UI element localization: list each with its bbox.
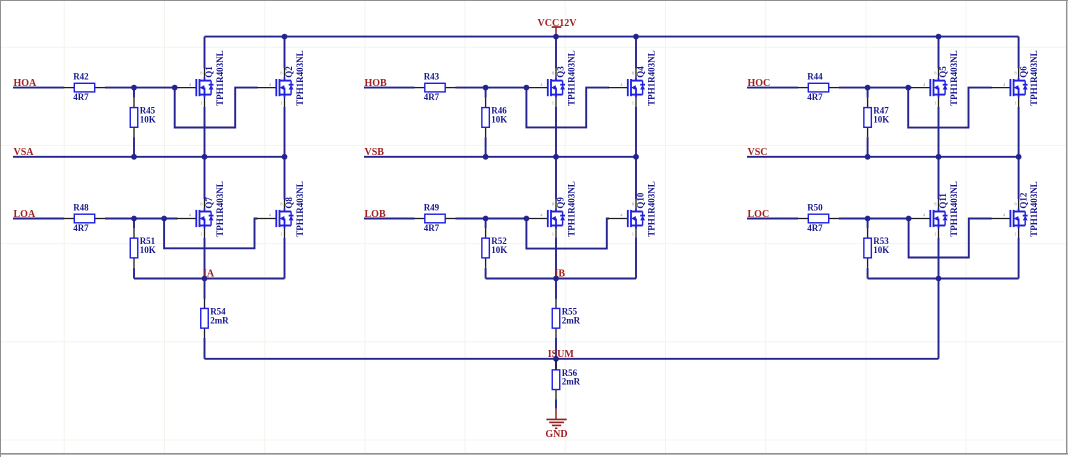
svg-text:TPH1R403NL: TPH1R403NL	[215, 181, 225, 237]
bulk-source tie	[555, 88, 557, 95]
source stub	[934, 225, 946, 227]
transistor Q12 TPH1R403NL N-MOSFET	[991, 181, 1040, 238]
svg-text:Q10: Q10	[636, 192, 646, 209]
junction VSA/R45	[131, 154, 137, 160]
pin 1	[867, 228, 869, 238]
source stub	[551, 225, 563, 227]
svg-text:TPH1R403NL: TPH1R403NL	[647, 181, 657, 237]
wire R45 top	[133, 88, 135, 98]
source stub	[631, 94, 643, 96]
wire phase C node to ISUM	[938, 279, 940, 359]
wire phase B source node	[486, 278, 636, 280]
source pin	[938, 229, 940, 239]
resistor R52 10K	[482, 228, 507, 268]
body	[864, 108, 872, 128]
resistor R51 10K	[130, 228, 155, 268]
drain stub	[280, 80, 292, 82]
gate pin	[257, 218, 277, 220]
gate bar	[1009, 79, 1011, 96]
junction VSB/R46	[483, 154, 489, 160]
resistor R49 4R7	[414, 202, 455, 233]
source pin	[555, 98, 557, 108]
pin 2	[133, 127, 135, 137]
wire ISUM to R56	[555, 359, 557, 370]
svg-text:Q11: Q11	[938, 193, 948, 209]
pin 2	[867, 127, 869, 137]
wire phase C source node	[868, 278, 1019, 280]
pin 1	[204, 299, 206, 309]
drain pin	[204, 68, 206, 78]
source pin	[1018, 98, 1020, 108]
wire Q11 drain to VSC	[938, 157, 940, 199]
pin 1	[555, 299, 557, 309]
junction LOB gate node	[524, 216, 530, 222]
source stub	[280, 94, 292, 96]
svg-text:10K: 10K	[140, 114, 156, 124]
svg-text:Q5: Q5	[938, 66, 948, 78]
source stub	[934, 94, 946, 96]
junction LOA/R51	[131, 216, 137, 222]
wire Q4 source to VSB	[635, 107, 637, 157]
pin 1	[64, 87, 74, 89]
resistor R55 2mR	[552, 299, 580, 339]
body diode	[1024, 212, 1026, 216]
wire R47 top	[867, 88, 869, 98]
wire Q11 source down	[938, 238, 940, 279]
junction VSC/R47	[865, 154, 871, 160]
wire VSC net	[747, 156, 1019, 158]
wire Q3 source to VSB	[555, 107, 557, 157]
resistor R45 10K	[130, 98, 155, 138]
svg-text:VCC12V: VCC12V	[538, 18, 578, 29]
resistor R42 4R7	[64, 71, 105, 102]
transistor Q9 TPH1R403NL N-MOSFET	[528, 181, 577, 238]
svg-text:4R7: 4R7	[807, 223, 823, 233]
pin 2	[829, 218, 839, 220]
drain stub	[200, 211, 212, 213]
wire ISUM net	[205, 358, 939, 360]
source pin	[284, 229, 286, 239]
junction VCC12V/Q2	[282, 34, 288, 40]
pin 2	[204, 328, 206, 338]
transistor Q10 TPH1R403NL N-MOSFET	[608, 181, 657, 238]
wire R52 top	[485, 219, 487, 229]
pin 2	[445, 218, 455, 220]
svg-text:2mR: 2mR	[210, 315, 229, 325]
svg-text:GND: GND	[545, 429, 567, 440]
wire R51 top	[133, 219, 135, 229]
svg-text:4R7: 4R7	[807, 92, 823, 102]
body	[808, 214, 828, 223]
svg-text:10K: 10K	[491, 245, 507, 255]
channel bar	[550, 79, 552, 96]
bulk stub with arrow	[203, 218, 205, 220]
gate pin	[608, 218, 628, 220]
wire Q7 source down	[204, 238, 206, 279]
wire R46 bottom	[485, 137, 487, 157]
drain pin	[204, 199, 206, 209]
gate pin	[911, 87, 931, 89]
body	[425, 83, 445, 92]
drain stub	[280, 211, 292, 213]
net label LOB	[365, 209, 386, 220]
wire HOA net	[13, 87, 178, 89]
bulk-source tie	[635, 219, 637, 226]
junction phase A source node	[202, 276, 208, 282]
body diode	[210, 212, 212, 216]
drain pin	[1018, 199, 1020, 209]
gate pin	[177, 87, 197, 89]
junction HOB gate node	[524, 85, 530, 91]
channel bar	[630, 79, 632, 96]
transistor Q7 TPH1R403NL N-MOSFET	[177, 181, 226, 238]
junction VSC/Q6	[1016, 154, 1022, 160]
bulk stub with arrow	[554, 87, 556, 89]
wire Q9 source down	[555, 238, 557, 279]
body diode	[290, 212, 292, 216]
pin 2	[133, 258, 135, 268]
wire Q1 drain to VCC	[204, 37, 206, 69]
svg-text:4R7: 4R7	[73, 223, 89, 233]
bulk-source tie	[635, 88, 637, 95]
svg-text:10K: 10K	[873, 114, 889, 124]
net label VSC	[748, 147, 768, 158]
net label LOA	[14, 209, 36, 220]
svg-text:R44: R44	[807, 71, 823, 81]
svg-text:Q4: Q4	[636, 66, 646, 78]
body diode	[1024, 81, 1026, 85]
drain pin	[1018, 68, 1020, 78]
body	[74, 83, 94, 92]
transistor Q1 TPH1R403NL N-MOSFET	[177, 50, 226, 107]
wire VSA net	[13, 156, 285, 158]
source stub	[280, 225, 292, 227]
wire Q2 drain to VCC	[284, 37, 286, 69]
drain pin	[635, 68, 637, 78]
net label IA	[203, 269, 215, 280]
drain pin	[284, 199, 286, 209]
svg-text:4R7: 4R7	[424, 223, 440, 233]
bulk stub with arrow	[1017, 218, 1019, 220]
wire LOA net	[13, 218, 178, 220]
svg-text:Q12: Q12	[1018, 192, 1028, 209]
wire Q12 source down	[1018, 238, 1020, 279]
body	[482, 108, 490, 128]
wire Q6 gate route	[908, 88, 991, 128]
junction HOC/R47	[865, 85, 871, 91]
source pin	[284, 98, 286, 108]
gate pin	[528, 218, 548, 220]
wire R45 bottom	[133, 137, 135, 157]
net label HOC	[748, 78, 771, 89]
junction VSA/Q2	[282, 154, 288, 160]
svg-text:Q3: Q3	[556, 66, 566, 78]
junction LOA gate node	[161, 216, 167, 222]
svg-text:Q6: Q6	[1018, 66, 1028, 78]
channel bar	[630, 210, 632, 227]
body diode	[944, 81, 946, 85]
drain pin	[555, 68, 557, 78]
power port VCC12V	[538, 18, 578, 37]
bulk stub with arrow	[634, 87, 636, 89]
resistor R43 4R7	[414, 71, 455, 102]
gate pin	[528, 87, 548, 89]
svg-text:TPH1R403NL: TPH1R403NL	[295, 181, 305, 237]
wire Q4 gate route	[526, 88, 609, 128]
resistor R48 4R7	[64, 202, 105, 233]
wire HOC net	[747, 87, 912, 89]
bulk stub with arrow	[554, 218, 556, 220]
wire R47 bottom	[867, 137, 869, 157]
transistor Q6 TPH1R403NL N-MOSFET	[991, 50, 1040, 107]
junction LOB/R52	[483, 216, 489, 222]
svg-text:TPH1R403NL: TPH1R403NL	[949, 50, 959, 106]
svg-text:Q8: Q8	[284, 197, 294, 209]
wire R56 to ground	[555, 400, 557, 409]
svg-text:Q9: Q9	[556, 197, 566, 209]
svg-text:TPH1R403NL: TPH1R403NL	[295, 50, 305, 106]
body	[552, 308, 560, 328]
junction VCC12V/Q3	[553, 34, 559, 40]
gate pin	[991, 87, 1011, 89]
pin 2	[555, 390, 557, 400]
channel bar	[933, 79, 935, 96]
wire Q5 drain to VCC	[938, 37, 940, 69]
junction HOC gate node	[905, 85, 911, 91]
gate bar	[627, 210, 629, 227]
wire R55 to ISUM	[555, 338, 557, 359]
source pin	[555, 229, 557, 239]
net label IB	[555, 269, 566, 280]
transistor Q8 TPH1R403NL N-MOSFET	[257, 181, 306, 238]
body	[864, 238, 872, 258]
pin 1	[798, 218, 808, 220]
junction HOB/R46	[483, 85, 489, 91]
drain stub	[934, 80, 946, 82]
svg-text:10K: 10K	[140, 245, 156, 255]
wire Q8 drain to VSA	[284, 157, 286, 199]
channel bar	[199, 79, 201, 96]
net label VSB	[365, 147, 385, 158]
svg-text:TPH1R403NL: TPH1R403NL	[1029, 181, 1039, 237]
svg-text:R43: R43	[424, 71, 440, 81]
pin 2	[95, 218, 105, 220]
body	[201, 308, 209, 328]
wire Q10 gate route	[526, 219, 609, 249]
drain stub	[631, 211, 643, 213]
wire Q10 source down	[635, 238, 637, 279]
junction VCC12V/Q5	[936, 34, 942, 40]
bulk-source tie	[284, 88, 286, 95]
resistor R46 10K	[482, 98, 507, 138]
body	[552, 370, 560, 390]
transistor Q11 TPH1R403NL N-MOSFET	[911, 181, 960, 238]
pin 2	[485, 258, 487, 268]
channel bar	[1013, 210, 1015, 227]
svg-text:Q1: Q1	[204, 66, 214, 78]
bulk-source tie	[1018, 219, 1020, 226]
bulk-source tie	[938, 88, 940, 95]
wire Q2 gate route	[175, 88, 258, 128]
wire Q9 drain to VSB	[555, 157, 557, 199]
svg-text:Q2: Q2	[284, 66, 294, 78]
source stub	[1014, 94, 1026, 96]
wire Q4 drain to VCC	[635, 37, 637, 69]
bulk-source tie	[204, 88, 206, 95]
bulk-source tie	[1018, 88, 1020, 95]
svg-text:4R7: 4R7	[73, 92, 89, 102]
body diode	[642, 81, 644, 85]
transistor Q2 TPH1R403NL N-MOSFET	[257, 50, 306, 107]
gate bar	[1009, 210, 1011, 227]
svg-text:2mR: 2mR	[562, 315, 581, 325]
resistor R56 2mR	[552, 360, 580, 400]
wire Q5 source to VSC	[938, 107, 940, 157]
bulk-source tie	[204, 219, 206, 226]
pin 1	[133, 98, 135, 108]
pin 1	[485, 228, 487, 238]
drain stub	[551, 211, 563, 213]
net label ISUM	[548, 349, 575, 360]
svg-text:2mR: 2mR	[562, 377, 581, 387]
drain stub	[934, 211, 946, 213]
drain pin	[938, 68, 940, 78]
bulk stub with arrow	[283, 218, 285, 220]
wire VCC12V rail	[205, 36, 1019, 38]
svg-text:10K: 10K	[873, 245, 889, 255]
drain pin	[635, 199, 637, 209]
wire Q7 drain to VSA	[204, 157, 206, 199]
pin 1	[555, 360, 557, 370]
svg-text:TPH1R403NL: TPH1R403NL	[1029, 50, 1039, 106]
wire phase A source node	[134, 278, 285, 280]
wire R53 bottom to phase node	[867, 268, 869, 279]
junction VSC/Q5	[936, 154, 942, 160]
bulk-source tie	[938, 219, 940, 226]
pin 1	[798, 87, 808, 89]
bulk stub with arrow	[937, 218, 939, 220]
drain stub	[1014, 211, 1026, 213]
wire R52 bottom to phase node	[485, 268, 487, 279]
pin 1	[414, 218, 424, 220]
drain stub	[631, 80, 643, 82]
source pin	[635, 229, 637, 239]
svg-text:TPH1R403NL: TPH1R403NL	[647, 50, 657, 106]
body diode	[562, 212, 564, 216]
wire LOC net	[747, 218, 912, 220]
source stub	[200, 94, 212, 96]
junction phase B source node	[553, 276, 559, 282]
gate bar	[195, 79, 197, 96]
resistor R47 10K	[864, 98, 889, 138]
bulk-source tie	[284, 219, 286, 226]
pin 1	[414, 87, 424, 89]
svg-text:R42: R42	[73, 71, 89, 81]
ground GND	[545, 409, 567, 441]
source pin	[1018, 229, 1020, 239]
channel bar	[279, 210, 281, 227]
gate pin	[177, 218, 197, 220]
svg-text:R49: R49	[424, 202, 440, 212]
wire VSB net	[364, 156, 636, 158]
junction VSB/Q3	[553, 154, 559, 160]
bulk stub with arrow	[1017, 87, 1019, 89]
drain pin	[938, 199, 940, 209]
svg-text:TPH1R403NL: TPH1R403NL	[567, 181, 577, 237]
net label LOC	[748, 209, 770, 220]
pin 2	[829, 87, 839, 89]
bulk-source tie	[555, 219, 557, 226]
channel bar	[279, 79, 281, 96]
gate bar	[627, 79, 629, 96]
bulk stub with arrow	[634, 218, 636, 220]
pin 2	[95, 87, 105, 89]
wire Q8 source down	[284, 238, 286, 279]
gate pin	[911, 218, 931, 220]
wire Q3 drain to VCC	[555, 37, 557, 69]
source pin	[204, 98, 206, 108]
wire Q8 gate route	[164, 219, 257, 249]
body	[74, 214, 94, 223]
resistor R50 4R7	[798, 202, 839, 233]
bulk stub with arrow	[937, 87, 939, 89]
channel bar	[1013, 79, 1015, 96]
drain stub	[1014, 80, 1026, 82]
pin 2	[445, 87, 455, 89]
svg-text:TPH1R403NL: TPH1R403NL	[949, 181, 959, 237]
pin 2	[485, 127, 487, 137]
net label HOB	[365, 78, 388, 89]
wire Q1 source to VSA	[204, 107, 206, 157]
pin 1	[64, 218, 74, 220]
drain stub	[200, 80, 212, 82]
gate pin	[991, 218, 1011, 220]
junction VSA/Q1	[202, 154, 208, 160]
wire IB to R55	[555, 279, 557, 299]
source pin	[938, 98, 940, 108]
gate bar	[275, 79, 277, 96]
wire Q10 drain to VSB	[635, 157, 637, 199]
pin 1	[133, 228, 135, 238]
body	[130, 238, 138, 258]
junction HOA gate node	[172, 85, 178, 91]
gate pin	[257, 87, 277, 89]
resistor R54 2mR	[201, 299, 229, 339]
channel bar	[550, 210, 552, 227]
source stub	[200, 225, 212, 227]
gate pin	[608, 87, 628, 89]
wire HOB net	[364, 87, 529, 89]
transistor Q5 TPH1R403NL N-MOSFET	[911, 50, 960, 107]
svg-text:R50: R50	[807, 202, 823, 212]
svg-text:4R7: 4R7	[424, 92, 440, 102]
body diode	[642, 212, 644, 216]
body	[808, 83, 828, 92]
bulk stub with arrow	[283, 87, 285, 89]
junction dot ISUM	[553, 356, 559, 362]
wire Q6 drain to VCC	[1018, 37, 1020, 69]
source pin	[204, 229, 206, 239]
svg-text:R48: R48	[73, 202, 89, 212]
body	[425, 214, 445, 223]
junction phase C source node	[936, 276, 942, 282]
net label VSA	[14, 147, 35, 158]
pin 1	[485, 98, 487, 108]
gate bar	[275, 210, 277, 227]
body diode	[290, 81, 292, 85]
wire Q12 drain to VSC	[1018, 157, 1020, 199]
drain pin	[284, 68, 286, 78]
